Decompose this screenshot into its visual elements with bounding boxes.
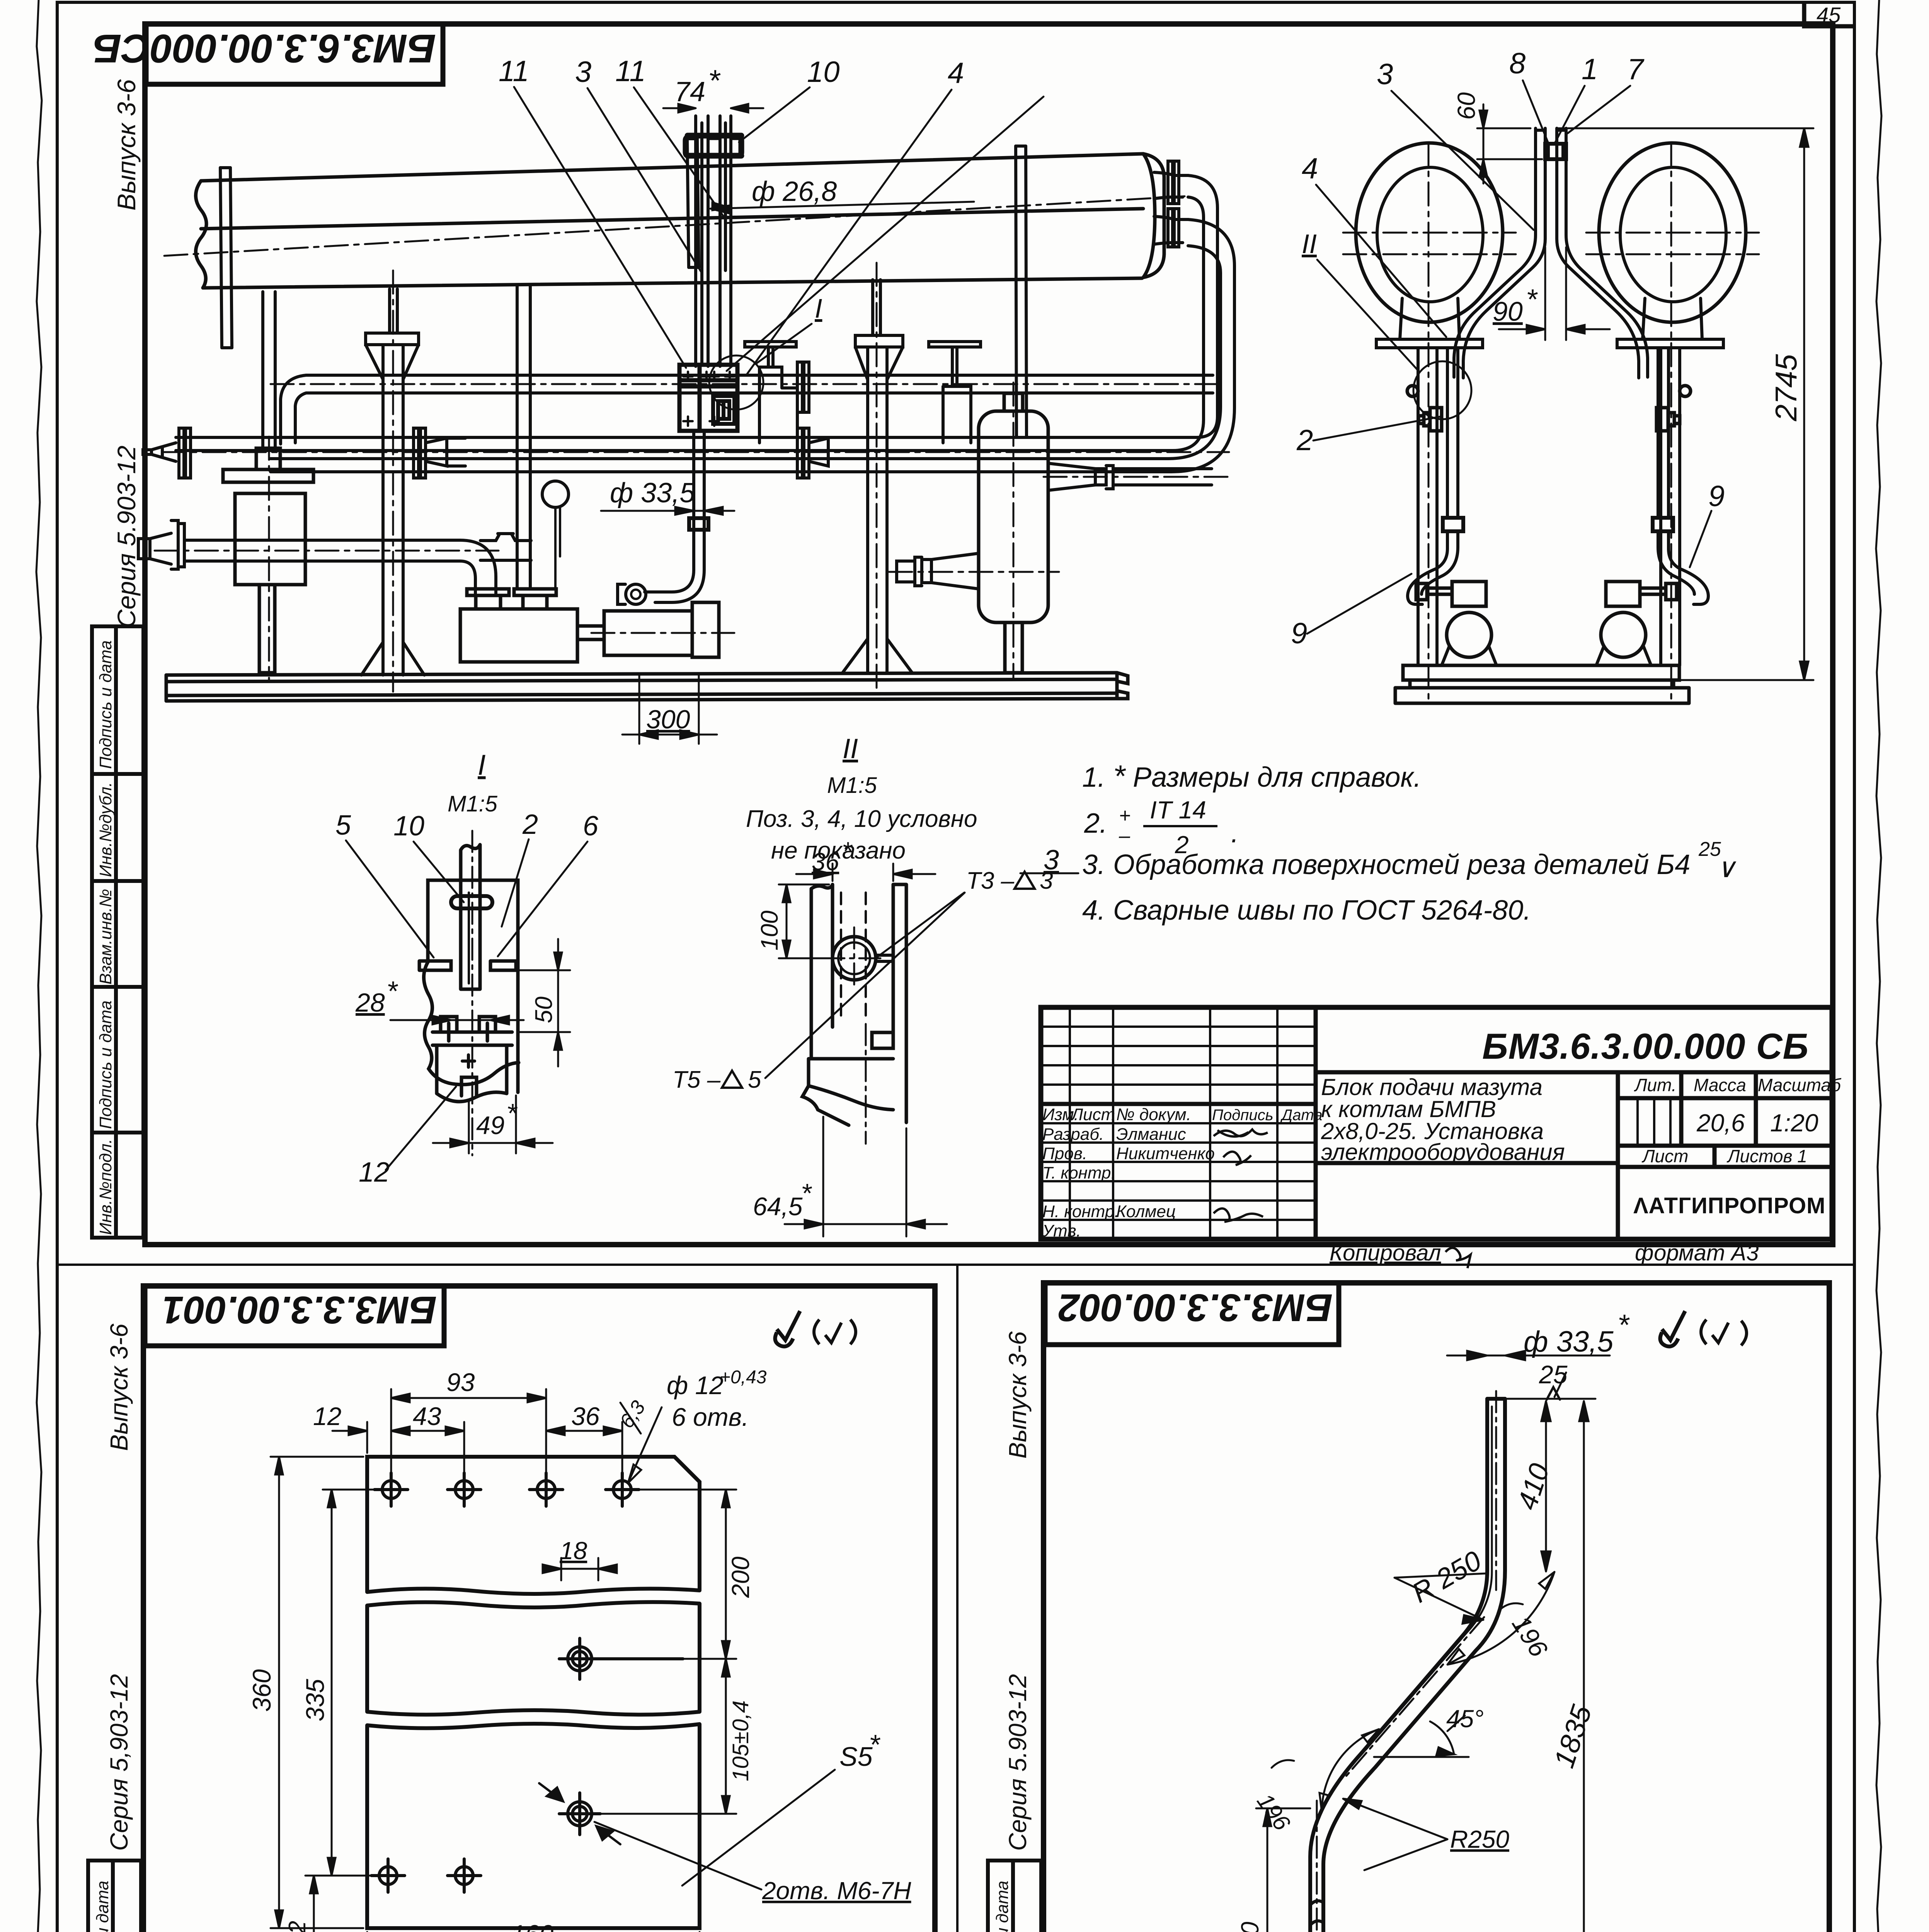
svg-text:5: 5 <box>335 810 351 841</box>
long leader to box from label 11 <box>727 97 1044 371</box>
svg-text:2отв. М6-7Н: 2отв. М6-7Н <box>762 1877 911 1905</box>
svg-text:93: 93 <box>446 1368 475 1396</box>
svg-text:Дата: Дата <box>1280 1107 1323 1124</box>
valve 1 on manifold <box>745 342 797 443</box>
svg-text:ф 33,5: ф 33,5 <box>1524 1325 1614 1358</box>
drum weld disc 2 <box>687 139 699 267</box>
left stamp strip (A3) <box>92 626 143 1238</box>
svg-text:8: 8 <box>1509 47 1525 80</box>
hole row bottom <box>371 1859 481 1892</box>
svg-text:№ докум.: № докум. <box>1116 1105 1191 1124</box>
plate bottom section <box>367 1724 700 1928</box>
svg-text:*: * <box>1526 283 1538 315</box>
drum weld disc 1 <box>220 168 232 348</box>
svg-text:+0,43: +0,43 <box>720 1367 767 1388</box>
oval centerlines <box>1343 142 1759 699</box>
svg-text:Масштаб: Масштаб <box>1758 1075 1842 1095</box>
hole callout ф12 <box>628 1407 662 1483</box>
svg-text:60: 60 <box>1452 92 1480 120</box>
dimension 300 <box>622 674 717 744</box>
pipe clamp right <box>1653 518 1673 531</box>
bracket detail at left support <box>1407 386 1442 431</box>
svg-text:Т3 –: Т3 – <box>966 867 1015 894</box>
descending fuel pipe left <box>1408 348 1458 604</box>
dim 36 <box>546 1422 622 1480</box>
detail I window right <box>490 961 516 970</box>
pressure gauge <box>542 481 569 507</box>
hole row top <box>375 1473 639 1506</box>
detail circle II <box>1413 361 1471 419</box>
svg-text:300: 300 <box>646 705 690 734</box>
svg-text:Масса: Масса <box>1694 1075 1746 1095</box>
svg-text:Никитченко: Никитченко <box>1116 1144 1215 1163</box>
svg-text:Копировал: Копировал <box>1330 1240 1441 1265</box>
svg-text:50: 50 <box>531 997 557 1023</box>
svg-text:Разраб.: Разраб. <box>1042 1125 1104 1144</box>
dimension 74* <box>663 104 763 112</box>
svg-text:Н. контр.: Н. контр. <box>1042 1202 1119 1221</box>
svg-text:9: 9 <box>1291 617 1307 650</box>
svg-text:ф 33,5: ф 33,5 <box>610 478 695 509</box>
svg-text:Поз. 3, 4, 10 условно: Поз. 3, 4, 10 условно <box>746 806 977 832</box>
A4 left sheet frame <box>143 1286 935 1932</box>
svg-text:4. Сварные швы по ГОСТ 526: 4. Сварные швы по ГОСТ 5264-80. <box>1082 895 1531 926</box>
burner neck left <box>1400 298 1459 339</box>
separator left nozzle <box>897 553 979 589</box>
svg-text:IT 14: IT 14 <box>1150 796 1206 824</box>
boiler drum outline <box>196 154 1143 288</box>
svg-text:I: I <box>478 749 486 781</box>
detail II dim 36* <box>796 864 935 881</box>
dim 360 <box>271 1457 363 1928</box>
svg-text:*: * <box>842 837 853 866</box>
svg-text:20,6: 20,6 <box>1696 1109 1745 1137</box>
svg-text:*: * <box>386 976 398 1007</box>
dimension 2745 <box>1558 128 1813 680</box>
196 top arc <box>1447 1572 1554 1665</box>
svg-text:3. Обработка поверхностей р: 3. Обработка поверхностей реза деталей Б… <box>1082 849 1690 880</box>
svg-text:64,5: 64,5 <box>753 1192 803 1221</box>
manifold flange pair C lower <box>797 428 809 478</box>
plate middle section <box>367 1602 700 1714</box>
svg-text:БМ3.3.3.00.001: БМ3.3.3.00.001 <box>162 1288 437 1332</box>
boiler right oval inner <box>1620 167 1726 302</box>
svg-text:II: II <box>843 733 858 764</box>
dim 800 <box>1256 1808 1310 1932</box>
A3 mirrored doc-number stamp box <box>146 24 443 84</box>
lower manifold pipe <box>176 437 1197 472</box>
svg-text:200: 200 <box>727 1556 754 1598</box>
svg-text:Инв.№подл.: Инв.№подл. <box>96 1139 115 1235</box>
vessel riser to drum <box>263 292 275 448</box>
upper manifold pipe <box>281 375 1213 444</box>
support column 1 <box>361 289 424 675</box>
dim 18 <box>543 1558 617 1580</box>
svg-text:Утв.: Утв. <box>1042 1221 1081 1240</box>
dim 43 <box>391 1422 464 1480</box>
svg-text:1: 1 <box>1582 53 1598 86</box>
separator right branch <box>1048 463 1212 490</box>
svg-text:Серия 5,903-12: Серия 5,903-12 <box>105 1674 133 1851</box>
plus marks on box <box>683 372 734 426</box>
detail I dim 49* <box>433 1095 553 1153</box>
support column 2 <box>843 280 912 673</box>
acceptance tick marks left sheet <box>775 1311 800 1347</box>
A4 left mirrored stamp box <box>145 1286 444 1346</box>
svg-text:*: * <box>1617 1309 1630 1342</box>
manifold left cone end <box>143 443 176 461</box>
mounting flange plate right <box>1617 339 1723 348</box>
left vessel (filter) <box>223 448 313 673</box>
svg-text:2: 2 <box>522 809 538 840</box>
boiler left oval inner <box>1377 167 1483 302</box>
manifold flange pair B <box>414 428 426 478</box>
dim 335 <box>323 1490 377 1876</box>
page number 45 box <box>1804 2 1854 26</box>
notes (A3) <box>1044 759 1737 926</box>
svg-text:36: 36 <box>812 848 839 876</box>
svg-text:ΛАТГИПРОПРОМ: ΛАТГИПРОПРОМ <box>1633 1193 1825 1218</box>
pipe collar <box>689 518 708 530</box>
svg-text:ф 26,8: ф 26,8 <box>752 176 837 207</box>
svg-text:БМ3.3.3.00.002: БМ3.3.3.00.002 <box>1058 1286 1333 1329</box>
svg-text:2: 2 <box>1296 424 1313 457</box>
detail II hole circle <box>833 937 876 980</box>
svg-text:36: 36 <box>571 1402 600 1430</box>
pump 1 block <box>460 589 577 662</box>
lit massa masshtab A3 <box>1634 1075 1842 1166</box>
svg-text:49: 49 <box>476 1111 504 1139</box>
junction box item I <box>679 365 737 431</box>
svg-text:7: 7 <box>1627 53 1645 86</box>
svg-text:R250: R250 <box>1450 1825 1509 1853</box>
dim 410 <box>1507 1399 1595 1571</box>
svg-text:3: 3 <box>1040 867 1053 894</box>
descending fuel pipe right <box>1658 348 1708 604</box>
svg-text:М1:5: М1:5 <box>827 773 877 798</box>
signatures A3 <box>1214 1129 1268 1136</box>
mounting flange plate left <box>1376 339 1483 348</box>
title block frame A3 <box>1041 1007 1832 1239</box>
elbow end fitting <box>626 584 646 604</box>
svg-text:S5: S5 <box>839 1742 873 1772</box>
drum nozzles right <box>1154 172 1188 244</box>
detail I clamp item 10 <box>451 896 492 908</box>
svg-text:Серия 5.903-12: Серия 5.903-12 <box>112 446 141 628</box>
dim 1835 <box>1579 1401 1588 1932</box>
svg-text:Подпись и дата: Подпись и дата <box>96 640 115 769</box>
junction box nozzle <box>713 396 734 424</box>
svg-text:формат А3: формат А3 <box>1635 1240 1759 1265</box>
base plinth <box>1395 665 1689 703</box>
svg-text:11: 11 <box>499 55 529 88</box>
svg-text:2.: 2. <box>1084 808 1107 839</box>
svg-text:160: 160 <box>511 1920 553 1932</box>
drawing name A3 <box>1321 1074 1565 1165</box>
drum weld disc 3 <box>1016 146 1027 437</box>
svg-text:Пров.: Пров. <box>1042 1144 1087 1163</box>
svg-text:.: . <box>1231 818 1239 849</box>
fuel pipe ф33,5 drop <box>645 431 704 602</box>
dim 105±0,4 <box>595 1659 736 1814</box>
svg-text:Выпуск 3-6: Выпуск 3-6 <box>105 1323 133 1451</box>
motor left <box>1416 582 1486 606</box>
hole lower middle <box>539 1783 620 1844</box>
pipe elbow down to pump <box>460 540 496 594</box>
svg-text:12: 12 <box>359 1157 390 1188</box>
svg-text:12: 12 <box>284 1921 311 1932</box>
svg-text:335: 335 <box>301 1679 329 1721</box>
sheet paste divider line <box>57 1264 1854 1266</box>
pipe break marks <box>1310 1901 1323 1925</box>
svg-text:Подпись: Подпись <box>1212 1107 1274 1124</box>
torn left scan edge <box>36 0 42 1932</box>
dimension 90* <box>1499 247 1610 340</box>
svg-text:+: + <box>1119 804 1130 827</box>
svg-text:Лит.: Лит. <box>1634 1075 1677 1095</box>
svg-text:28: 28 <box>355 988 385 1017</box>
nozzle flange disc upper <box>1168 161 1179 204</box>
svg-text:11: 11 <box>615 55 646 88</box>
detail I bracket plate <box>424 880 519 1092</box>
svg-text:43: 43 <box>413 1402 441 1430</box>
detail I dim 28* <box>390 1016 524 1024</box>
dim 12 <box>332 1422 367 1453</box>
svg-text:90: 90 <box>1493 296 1523 327</box>
support column left <box>1418 348 1437 665</box>
svg-text:6 отв.: 6 отв. <box>672 1403 749 1431</box>
svg-text:5: 5 <box>748 1066 761 1093</box>
svg-text:9: 9 <box>1708 480 1725 513</box>
svg-text:электрооборудования: электрооборудования <box>1321 1139 1565 1165</box>
valve 2 on manifold <box>929 342 981 443</box>
svg-text:3: 3 <box>1377 58 1393 91</box>
svg-text:Выпуск 3-6: Выпуск 3-6 <box>112 79 141 211</box>
dimension 60 <box>1477 104 1542 184</box>
svg-text:*: * <box>708 63 721 97</box>
detail II dim 64,5* <box>785 1117 947 1236</box>
svg-text:Взам.инв.№: Взам.инв.№ <box>96 889 115 985</box>
svg-text:Т5 –: Т5 – <box>673 1066 721 1093</box>
detail II lower bracket <box>802 1032 893 1125</box>
svg-text:Инв.№дубл.: Инв.№дубл. <box>96 782 115 877</box>
svg-text:74: 74 <box>674 77 705 107</box>
title block grid A3 <box>1041 1007 1670 1239</box>
motor 1 <box>577 602 719 657</box>
suction pipe drum to pump <box>517 286 530 589</box>
acceptance tick marks right sheet <box>1660 1311 1686 1347</box>
svg-text:45°: 45° <box>1446 1705 1484 1733</box>
staff rows A3 <box>1042 1105 1323 1240</box>
small tee on pipe <box>480 534 531 560</box>
svg-text:ф 12: ф 12 <box>667 1371 724 1400</box>
support column right <box>1661 348 1680 665</box>
svg-text:Выпуск 3-6: Выпуск 3-6 <box>1004 1331 1032 1459</box>
svg-text:Лист: Лист <box>1070 1105 1115 1124</box>
svg-text:105±0,4: 105±0,4 <box>728 1701 753 1781</box>
dim 200 <box>595 1490 736 1659</box>
svg-text:I: I <box>815 293 822 323</box>
svg-text:–: – <box>1119 825 1130 847</box>
svg-text:1. * Размеры для справок.: 1. * Размеры для справок. <box>1082 759 1421 793</box>
manifold reducer cones <box>426 438 465 466</box>
A3 sheet frame <box>145 24 1833 1245</box>
svg-text:Элманис: Элманис <box>1116 1125 1186 1144</box>
svg-text:800: 800 <box>1236 1922 1264 1932</box>
left stamp strip (right sheet) <box>988 1861 1041 1932</box>
A4 right sheet frame <box>1044 1283 1829 1932</box>
svg-text:М1:5: М1:5 <box>448 791 498 816</box>
196 bottom arc <box>1322 1729 1379 1812</box>
pipe centerlines <box>1317 1391 1496 1932</box>
detail I pipe <box>461 845 480 989</box>
pump circle left <box>1447 612 1491 657</box>
svg-text:360: 360 <box>247 1669 276 1712</box>
svg-text:Подпись и дата: Подпись и дата <box>93 1881 112 1932</box>
drum centerline <box>164 196 1185 256</box>
dim 93 <box>391 1389 546 1480</box>
left stamp strip (left sheet) <box>88 1861 141 1932</box>
detail I lower bracket <box>432 1017 512 1102</box>
riser clamp flange (black) <box>686 137 741 156</box>
svg-text:25: 25 <box>1539 1360 1568 1389</box>
separator vessel <box>979 393 1048 673</box>
burner neck right <box>1643 298 1702 339</box>
torn right scan edge <box>1876 0 1881 1932</box>
svg-text:Листов 1: Листов 1 <box>1726 1146 1807 1166</box>
left nozzle pipe with cone <box>138 520 460 569</box>
boiler left oval outer <box>1356 143 1503 322</box>
base rail <box>166 673 1128 701</box>
svg-text:*: * <box>801 1178 812 1208</box>
svg-text:БМ3.6.3.00.000 СБ: БМ3.6.3.00.000 СБ <box>1482 1026 1809 1066</box>
svg-text:10: 10 <box>807 56 840 88</box>
nozzle flange disc lower <box>1168 209 1179 247</box>
svg-text:II: II <box>1302 229 1317 259</box>
bracket detail at right support <box>1657 386 1691 431</box>
paper edge between bottom sheets <box>956 1265 959 1932</box>
pipe top vertical run <box>1310 1399 1505 1932</box>
pipe clamp left <box>1443 518 1463 531</box>
elbow pipes from drum to manifold <box>1168 175 1234 472</box>
detail I window left <box>419 961 451 970</box>
svg-text:2745: 2745 <box>1769 354 1803 422</box>
svg-text:18: 18 <box>560 1537 587 1565</box>
drum right end cap <box>1143 154 1164 277</box>
svg-text:4: 4 <box>948 57 964 90</box>
detail circle I <box>709 355 763 410</box>
twin riser pipes item 3,10 <box>696 116 731 366</box>
svg-text:Т. контр.: Т. контр. <box>1042 1163 1116 1182</box>
svg-text:∨: ∨ <box>1716 853 1737 883</box>
A4 right mirrored stamp box <box>1045 1283 1339 1345</box>
manifold flange pair C upper <box>797 362 809 412</box>
detail I dim 50 <box>518 939 570 1066</box>
pipe inner wall line <box>1366 1406 1492 1750</box>
svg-text:6: 6 <box>583 811 599 842</box>
svg-text:*: * <box>869 1730 880 1760</box>
pump circle right <box>1601 612 1646 657</box>
svg-text:*: * <box>506 1098 518 1128</box>
svg-text:Подпись и дата: Подпись и дата <box>96 1000 115 1129</box>
svg-text:Подпись и дата: Подпись и дата <box>993 1881 1012 1932</box>
motor right <box>1606 582 1677 606</box>
detail II dim 100 <box>779 884 831 958</box>
svg-text:БМ3.6.3.00.000СБ: БМ3.6.3.00.000СБ <box>93 26 436 71</box>
svg-text:10: 10 <box>393 811 424 842</box>
plate outline top section <box>367 1457 700 1594</box>
manifold flange pair A <box>179 428 191 478</box>
svg-text:100: 100 <box>756 911 783 951</box>
hole middle <box>559 1638 683 1679</box>
top connector item 1/8 <box>1545 144 1566 159</box>
svg-text:Лист: Лист <box>1641 1146 1688 1166</box>
boiler right oval outer <box>1599 143 1746 322</box>
svg-text:Серия 5.903-12: Серия 5.903-12 <box>1004 1674 1032 1851</box>
svg-text:12: 12 <box>313 1402 341 1430</box>
detail II plate <box>811 884 906 1122</box>
central riser pipes with S-bends <box>1454 128 1648 378</box>
svg-text:1:20: 1:20 <box>1770 1109 1818 1137</box>
svg-text:4: 4 <box>1302 152 1318 185</box>
svg-text:Колмец: Колмец <box>1116 1202 1176 1221</box>
dim 12 bottom <box>305 1876 363 1932</box>
svg-text:3: 3 <box>575 56 591 88</box>
